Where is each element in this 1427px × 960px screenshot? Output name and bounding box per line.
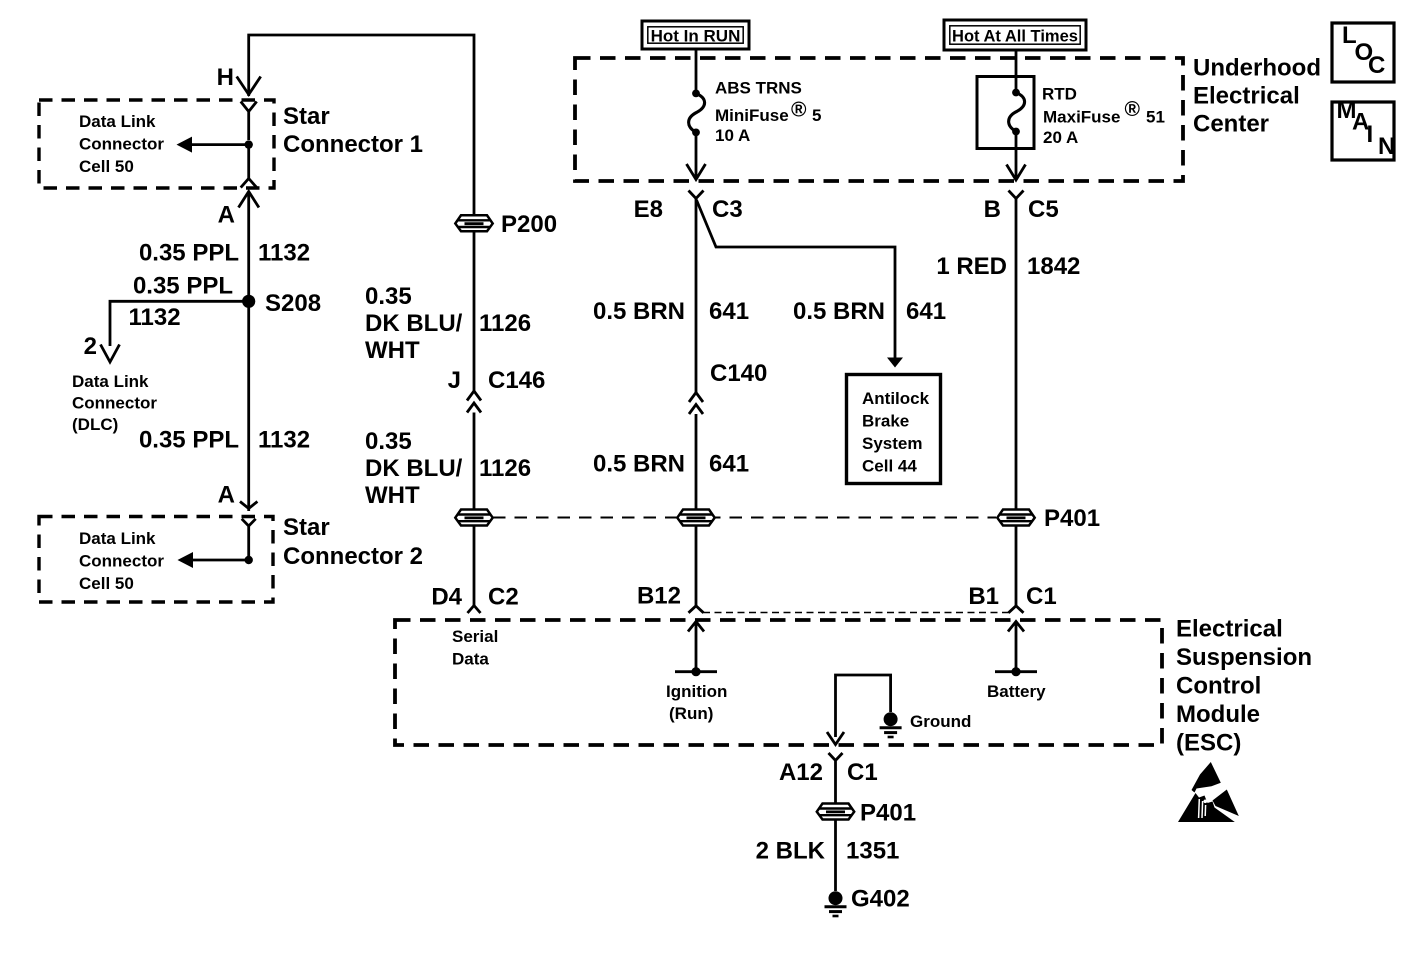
wire serial data from C146 to P-row connector [473, 413, 476, 510]
dashed thin line from B12 to B1 chevron legs [703, 612, 1009, 614]
wire arrow to Data Link Connector Cell 50 (Star Connector 2) [192, 559, 249, 562]
node H arrowhead into Star Connector 1 [237, 77, 261, 95]
svg-text:WHT: WHT [365, 337, 420, 364]
svg-text:Ground: Ground [910, 712, 971, 731]
connector P401 row symbol on serial data wire [455, 510, 492, 526]
svg-text:RTD: RTD [1042, 84, 1077, 103]
svg-text:A: A [218, 482, 235, 509]
ground symbol inside ESC [880, 712, 902, 737]
svg-text:B12: B12 [637, 583, 681, 610]
svg-text:Electrical: Electrical [1176, 616, 1283, 643]
connector C140 double chevron [689, 393, 703, 415]
node junction dot inside Star Connector 2 [245, 556, 253, 564]
svg-text:(ESC): (ESC) [1176, 730, 1241, 757]
connector symbol on ignition wire (P401 row) [677, 510, 714, 526]
arrowhead down at ESC bottom edge A12 [827, 732, 844, 745]
svg-text:641: 641 [709, 451, 749, 478]
connector P401 row symbol on battery wire [997, 510, 1034, 526]
svg-text:1132: 1132 [258, 240, 310, 267]
wire arrow to Data Link Connector Cell 50 (Star Connector 1) [191, 143, 249, 146]
star connector 1 dashed box [39, 100, 274, 188]
svg-text:1126: 1126 [479, 310, 531, 337]
svg-text:2: 2 [84, 333, 97, 360]
svg-text:C140: C140 [710, 360, 767, 387]
label MAIN letters [1337, 97, 1396, 160]
wire A arrowhead up into Star Connector 1 and wire down to S208 [239, 192, 259, 512]
arrowhead into Antilock Brake System box [887, 358, 903, 368]
svg-text:(DLC): (DLC) [72, 415, 118, 434]
svg-text:Hot In RUN: Hot In RUN [651, 27, 741, 46]
wire from RTD fuse to underhood box edge with arrowhead [1007, 132, 1026, 181]
svg-text:5: 5 [812, 106, 821, 125]
svg-text:641: 641 [906, 298, 946, 325]
wire internal ground jumper inside ESC [836, 675, 891, 737]
svg-text:20 A: 20 A [1043, 128, 1078, 147]
svg-text:Antilock: Antilock [862, 389, 930, 408]
svg-text:Underhood: Underhood [1193, 55, 1321, 82]
wire ignition from C3 to C140 [695, 199, 698, 393]
svg-text:0.35: 0.35 [365, 283, 412, 310]
ESD warning symbol [1178, 762, 1239, 822]
svg-text:Battery: Battery [987, 682, 1046, 701]
svg-text:Connector: Connector [79, 552, 164, 571]
svg-text:N: N [1378, 133, 1395, 160]
connector chevron at A pin bottom of Star Connector 1 [241, 179, 257, 188]
svg-text:0.35: 0.35 [365, 428, 412, 455]
svg-text:Data Link: Data Link [72, 372, 149, 391]
svg-text:ABS TRNS: ABS TRNS [715, 78, 802, 97]
star connector 2 dashed box [39, 517, 273, 603]
svg-text:0.5 BRN: 0.5 BRN [593, 298, 685, 325]
svg-text:Center: Center [1193, 111, 1269, 138]
wire serial data from P200 to C146 [473, 232, 476, 391]
svg-text:Star: Star [283, 103, 330, 130]
svg-text:Star: Star [283, 514, 330, 541]
svg-text:Module: Module [1176, 701, 1260, 728]
svg-text:C3: C3 [712, 196, 743, 223]
svg-text:C146: C146 [488, 367, 545, 394]
connector chevron at A12/C1 [829, 753, 843, 803]
svg-text:Data Link: Data Link [79, 529, 156, 548]
svg-text:DK BLU/: DK BLU/ [365, 455, 463, 482]
svg-text:C1: C1 [1026, 583, 1057, 610]
box LOC locator [1332, 23, 1394, 82]
svg-text:A12: A12 [779, 759, 823, 786]
arrowhead down at DLC branch [101, 345, 120, 363]
svg-text:Ignition: Ignition [666, 682, 727, 701]
svg-text:S208: S208 [265, 290, 321, 317]
arrow up at ignition input inside ESC [688, 622, 704, 672]
fuse ABS TRNS MiniFuse 5 [689, 90, 705, 137]
svg-text:Cell 44: Cell 44 [862, 457, 917, 476]
svg-text:Cell 50: Cell 50 [79, 574, 134, 593]
svg-text:G402: G402 [851, 886, 910, 913]
wire branch from C3 to Antilock Brake System [697, 200, 896, 360]
svg-text:1132: 1132 [129, 304, 181, 331]
svg-text:Connector 1: Connector 1 [283, 131, 423, 158]
svg-text:Suspension: Suspension [1176, 644, 1312, 671]
fuse RTD MaxiFuse 51 [1009, 89, 1025, 136]
svg-text:Control: Control [1176, 673, 1261, 700]
svg-text:®: ® [791, 99, 807, 122]
svg-text:Electrical: Electrical [1193, 83, 1300, 110]
box Hot In RUN [642, 21, 749, 49]
svg-text:B1: B1 [968, 583, 999, 610]
svg-text:(Run): (Run) [669, 704, 713, 723]
ESC module dashed box [395, 620, 1162, 745]
svg-text:641: 641 [709, 298, 749, 325]
node S208 junction dot [242, 295, 255, 308]
arrow up at battery input inside ESC [1008, 622, 1024, 672]
arrowhead down at A pin of Star Connector 2 [240, 502, 257, 509]
wire from Hot In RUN to fuse [695, 49, 698, 93]
svg-text:2 BLK: 2 BLK [756, 838, 826, 865]
svg-text:0.35 PPL: 0.35 PPL [133, 273, 233, 300]
wire battery from C5 to P401 [1015, 199, 1018, 510]
svg-text:I: I [1367, 121, 1374, 148]
svg-text:Connector: Connector [72, 394, 157, 413]
wire serial data from P-row to ESC pin D4 [473, 526, 476, 606]
svg-text:Cell 50: Cell 50 [79, 157, 134, 176]
label Electrical Suspension Control Module (ESC) [1176, 616, 1312, 757]
svg-text:®: ® [1125, 98, 1141, 121]
svg-text:D4: D4 [431, 584, 462, 611]
svg-text:Hot At All Times: Hot At All Times [952, 28, 1078, 46]
svg-text:Data Link: Data Link [79, 112, 156, 131]
svg-text:Data: Data [452, 650, 489, 669]
svg-text:0.5 BRN: 0.5 BRN [793, 298, 885, 325]
svg-text:DK BLU/: DK BLU/ [365, 310, 463, 337]
svg-text:H: H [217, 64, 234, 91]
svg-text:1351: 1351 [846, 838, 899, 865]
connector P401 below ESC [817, 804, 854, 820]
svg-text:MaxiFuse: MaxiFuse [1043, 107, 1120, 126]
svg-text:51: 51 [1146, 107, 1165, 126]
svg-text:1842: 1842 [1027, 253, 1080, 280]
node junction dot inside Star Connector 1 [245, 140, 253, 148]
svg-text:C: C [1368, 52, 1385, 79]
svg-text:Connector: Connector [79, 135, 164, 154]
svg-text:System: System [862, 434, 922, 453]
wire from fuse to underhood box edge with arrowhead [687, 132, 706, 179]
svg-text:10 A: 10 A [715, 126, 750, 145]
label LOC letters [1342, 22, 1385, 79]
box RTD MaxiFuse 51 [977, 77, 1034, 149]
box Antilock Brake System Cell 44 [847, 375, 941, 484]
svg-text:0.35 PPL: 0.35 PPL [139, 240, 239, 267]
svg-text:J: J [448, 367, 461, 394]
svg-text:P401: P401 [860, 800, 916, 827]
terminal bar with dot for Battery [995, 670, 1037, 673]
box MAIN locator [1332, 102, 1394, 160]
connector C146 double chevron [467, 391, 481, 413]
wire ignition from C140 to P-row connector [695, 414, 698, 510]
wire ignition from P-row to ESC pin B12 [695, 526, 698, 606]
terminal bar with dot for Ignition (Run) [675, 670, 717, 673]
svg-text:1132: 1132 [258, 427, 310, 454]
svg-text:Brake: Brake [862, 412, 909, 431]
svg-text:MiniFuse: MiniFuse [715, 106, 789, 125]
connector chevron at B/C5 [1009, 191, 1024, 199]
svg-text:B: B [984, 196, 1001, 223]
connector P200 [455, 215, 492, 231]
svg-text:C2: C2 [488, 584, 519, 611]
ground G402 [825, 891, 847, 916]
svg-text:P401: P401 [1044, 505, 1100, 532]
svg-text:Serial: Serial [452, 627, 498, 646]
connector chevron at A pin of Star Connector 2 [242, 519, 256, 560]
connector chevron at ESC pin B12 [689, 606, 704, 613]
svg-text:A: A [218, 202, 235, 229]
dashed tie line between P401 row connectors [493, 517, 996, 519]
svg-text:0.5 BRN: 0.5 BRN [593, 451, 685, 478]
connector chevron at H pin of Star Connector 1 [241, 102, 257, 141]
svg-text:P200: P200 [501, 211, 557, 238]
svg-text:1126: 1126 [479, 455, 531, 482]
svg-text:1 RED: 1 RED [936, 253, 1007, 280]
connector chevron at ESC pin D4/C2 [468, 606, 481, 614]
wire battery from P401 to ESC pin B1 [1015, 526, 1018, 606]
box Hot At All Times [944, 20, 1086, 50]
svg-text:0.35 PPL: 0.35 PPL [139, 427, 239, 454]
wire from Hot At All Times to RTD fuse [1015, 50, 1018, 93]
svg-text:Connector 2: Connector 2 [283, 543, 423, 570]
wire branch from S208 to Data Link Connector (DLC) [110, 301, 249, 346]
svg-text:C5: C5 [1028, 196, 1059, 223]
wire 2 BLK 1351 to G402 [834, 820, 837, 891]
underhood electrical center dashed box [575, 58, 1183, 181]
svg-text:WHT: WHT [365, 482, 420, 509]
wire top horizontal from Star Connector 1 to P200 branch [249, 35, 474, 215]
connector chevron at ESC pin B1/C1 [1009, 606, 1024, 613]
svg-text:E8: E8 [634, 196, 663, 223]
connector chevron at E8/C3 [689, 191, 704, 199]
wire from dot to bottom chevron inside Star Connector 1 [247, 145, 250, 179]
svg-text:C1: C1 [847, 759, 878, 786]
